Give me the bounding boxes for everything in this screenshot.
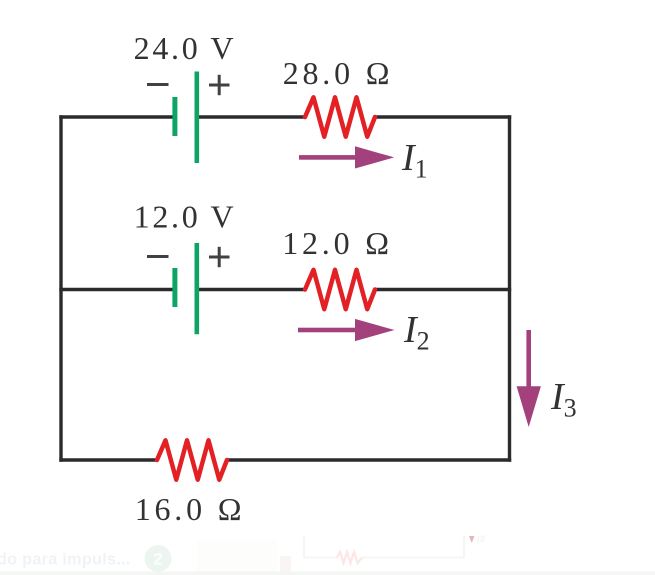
svg-text:I3: I3 [477, 534, 485, 544]
svg-text:24.0 V: 24.0 V [134, 30, 237, 66]
svg-text:do para impuls...: do para impuls... [0, 551, 131, 569]
svg-text:12.0 V: 12.0 V [134, 199, 237, 235]
svg-text:2: 2 [153, 550, 162, 569]
svg-text:12.0 Ω: 12.0 Ω [282, 225, 393, 261]
svg-text:16.0 Ω: 16.0 Ω [135, 491, 246, 527]
svg-text:28.0 Ω: 28.0 Ω [283, 55, 394, 91]
